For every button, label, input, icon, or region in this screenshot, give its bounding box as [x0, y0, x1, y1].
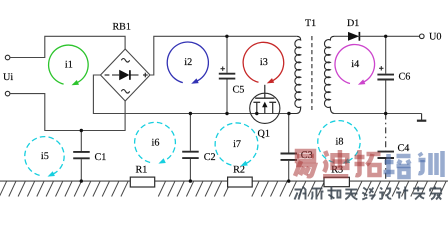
- watermark char 5: [419, 151, 443, 177]
- input terminal bottom: [5, 91, 10, 96]
- watermark small char 2: [311, 189, 323, 200]
- capacitor C4: [378, 114, 410, 182]
- watermark char 3: [355, 150, 381, 175]
- loop i3: [243, 42, 284, 83]
- loop i5: [25, 137, 64, 177]
- wire input bottom to bridge bottom: [10, 94, 125, 131]
- watermark small char 6: [379, 188, 391, 199]
- junction dot: [384, 35, 387, 38]
- ground: [421, 114, 423, 121]
- loop i2: [167, 42, 208, 84]
- wire secondary bottom to ground: [334, 113, 422, 115]
- capacitor C1: [73, 131, 106, 182]
- junction dot: [189, 112, 192, 115]
- watermark char 4: [384, 154, 411, 177]
- loop i1: [49, 45, 89, 85]
- watermark small char 5: [362, 188, 374, 200]
- wire bridge plus to top rail: [150, 36, 297, 75]
- input terminal top: [5, 55, 10, 60]
- capacitor C6: [377, 36, 410, 113]
- transformer T1 primary: [289, 36, 301, 113]
- watermark char 1: [295, 151, 315, 176]
- watermark small char 8: [413, 187, 425, 200]
- transformer T1 secondary: [324, 36, 334, 113]
- transformer core: [311, 36, 313, 110]
- junction dot: [225, 112, 228, 115]
- loop i7: [215, 123, 258, 166]
- wire secondary top to D1: [334, 35, 348, 37]
- loop i6: [135, 122, 176, 163]
- capacitor C3: [281, 114, 313, 182]
- junction dot: [287, 179, 290, 182]
- junction dot: [80, 129, 83, 132]
- transistor Q1: [250, 85, 280, 140]
- junction dot: [287, 112, 290, 115]
- capacitor C5: [219, 36, 245, 113]
- diode D1: [348, 32, 359, 41]
- resistor R1: [130, 177, 154, 187]
- watermark small char 4: [345, 190, 357, 200]
- watermark small char 3: [327, 187, 340, 200]
- resistor R3: [324, 177, 349, 186]
- junction dot: [225, 35, 228, 38]
- watermark small char 1: [295, 187, 307, 200]
- junction dot: [80, 179, 83, 182]
- junction dot: [384, 112, 387, 115]
- wire D1 to output: [359, 35, 419, 37]
- capacitor C2: [182, 114, 215, 182]
- resistor R2: [228, 177, 253, 187]
- watermark small char 7: [396, 187, 408, 200]
- wire input top to top rail: [10, 36, 125, 57]
- watermark char 2: [323, 150, 348, 176]
- junction dot: [189, 179, 192, 182]
- ground plane: [0, 181, 446, 196]
- output terminal: [420, 34, 425, 39]
- wire bridge minus to DC- rail: [93, 75, 289, 114]
- watermark small char 9: [430, 187, 442, 200]
- loop i8: [318, 121, 360, 164]
- bridge rectifier RB1: [101, 49, 151, 101]
- loop i4: [335, 44, 375, 84]
